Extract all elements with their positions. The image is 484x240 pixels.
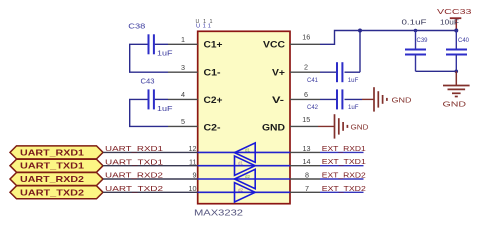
svg-text:d1: d1 xyxy=(238,161,244,166)
wire V- row xyxy=(320,98,336,100)
junction node C39 tap xyxy=(414,29,418,33)
svg-text:EXT_TXD1: EXT_TXD1 xyxy=(322,157,366,166)
svg-text:UART_TXD2: UART_TXD2 xyxy=(105,184,163,193)
svg-text:C41: C41 xyxy=(307,77,319,84)
wire V+ row xyxy=(320,71,336,73)
pin 8 stub xyxy=(290,178,320,180)
op-amp U1 chip body MAX3232 xyxy=(198,31,290,203)
port UART_TXD1 xyxy=(10,159,103,172)
wire V+ riser xyxy=(359,31,361,73)
pin 13 stub xyxy=(290,151,320,153)
capacitor C1 wire left segment row1 xyxy=(130,44,168,72)
buffer T2 triangle xyxy=(235,183,256,202)
svg-text:U11: U11 xyxy=(196,24,211,30)
svg-text:C2-: C2- xyxy=(204,122,221,132)
svg-text:11: 11 xyxy=(189,157,196,166)
port UART_RXD2 xyxy=(10,173,103,186)
wire net EXT_RXD2 xyxy=(320,178,364,180)
svg-text:UART_TXD1: UART_TXD1 xyxy=(105,157,163,166)
capacitor C42 xyxy=(307,89,359,110)
svg-text:GND: GND xyxy=(443,99,467,108)
pin 16 stub xyxy=(290,43,320,45)
svg-text:4: 4 xyxy=(181,90,185,99)
pin 4 stub xyxy=(168,98,198,100)
svg-text:C43: C43 xyxy=(141,78,155,85)
pin 2 stub xyxy=(290,71,320,73)
ground sideways at V- xyxy=(362,87,387,111)
svg-text:UART_RXD1: UART_RXD1 xyxy=(20,147,84,157)
pin 15 stub xyxy=(290,125,318,127)
pin 7 stub xyxy=(290,191,320,193)
svg-text:6: 6 xyxy=(304,90,308,99)
wire net EXT_RXD1 xyxy=(320,151,364,153)
svg-text:C1+: C1+ xyxy=(204,40,223,50)
capacitor C2 wire left segment row3 xyxy=(130,99,168,126)
svg-text:GND: GND xyxy=(392,98,412,105)
svg-text:C1-: C1- xyxy=(204,68,221,78)
svg-text:MAX3232: MAX3232 xyxy=(194,209,244,218)
svg-text:d2: d2 xyxy=(238,188,244,193)
buffer R2 triangle xyxy=(235,169,256,188)
svg-text:UART_TXD2: UART_TXD2 xyxy=(20,187,84,197)
capacitor C41 xyxy=(307,62,359,84)
ground sideways at pin15 xyxy=(318,114,347,138)
svg-text:10: 10 xyxy=(189,184,197,193)
wire row3 inside chip xyxy=(198,178,290,180)
buffer R1 triangle xyxy=(235,143,256,162)
wire row4 inside chip xyxy=(198,191,290,193)
junction node cap bottom xyxy=(455,70,459,74)
ground down at C40 xyxy=(443,71,470,96)
svg-text:d2: d2 xyxy=(245,174,251,179)
junction node V+ tap xyxy=(358,29,362,33)
svg-text:VCC: VCC xyxy=(263,40,286,50)
capacitor C39 0.1uF xyxy=(402,20,429,72)
svg-text:13: 13 xyxy=(303,144,311,153)
svg-text:2: 2 xyxy=(304,63,308,72)
tiny labels inside buffers xyxy=(238,148,251,193)
svg-text:15: 15 xyxy=(302,115,310,124)
pin 6 stub xyxy=(290,98,320,100)
capacitor C40 10uF xyxy=(440,20,470,72)
junction node rail end xyxy=(454,29,458,33)
svg-text:EXT_RXD2: EXT_RXD2 xyxy=(322,171,366,180)
svg-text:V-: V- xyxy=(272,95,284,105)
svg-text:C38: C38 xyxy=(128,23,145,30)
svg-text:1uF: 1uF xyxy=(157,106,173,113)
svg-text:1uF: 1uF xyxy=(348,104,359,111)
buffer T1 triangle xyxy=(235,156,256,175)
svg-text:9: 9 xyxy=(193,171,197,180)
wire net EXT_TXD1 xyxy=(320,165,364,167)
svg-text:5: 5 xyxy=(181,117,185,126)
svg-text:GND: GND xyxy=(351,125,369,132)
svg-text:C40: C40 xyxy=(458,37,470,44)
svg-text:C2+: C2+ xyxy=(204,95,223,105)
svg-text:C42: C42 xyxy=(307,104,319,111)
pin 1 stub xyxy=(168,43,198,45)
svg-text:EXT_RXD1: EXT_RXD1 xyxy=(322,144,366,153)
svg-text:UART_RXD2: UART_RXD2 xyxy=(20,174,84,184)
svg-text:UART_RXD1: UART_RXD1 xyxy=(105,144,163,153)
wire row2 inside chip xyxy=(198,165,290,167)
port UART_TXD2 xyxy=(10,186,103,199)
svg-text:12: 12 xyxy=(189,144,197,153)
wire port2 to pin11 xyxy=(103,165,198,167)
svg-text:1: 1 xyxy=(181,35,185,44)
power port VCC33 xyxy=(437,9,472,30)
pin 5 stub xyxy=(168,125,198,127)
svg-text:UART_RXD2: UART_RXD2 xyxy=(105,171,163,180)
pin 14 stub xyxy=(290,165,320,167)
svg-text:VCC33: VCC33 xyxy=(437,9,472,16)
svg-text:16: 16 xyxy=(302,33,310,42)
svg-text:7: 7 xyxy=(305,184,309,193)
capacitor C38 xyxy=(128,23,172,57)
svg-text:GND: GND xyxy=(262,122,286,132)
svg-text:V+: V+ xyxy=(272,68,285,78)
wire cap C2 right segment xyxy=(155,98,168,100)
svg-text:EXT_TXD2: EXT_TXD2 xyxy=(322,184,366,193)
svg-text:0.1uF: 0.1uF xyxy=(402,20,427,27)
svg-text:C39: C39 xyxy=(417,37,429,44)
svg-text:10uF: 10uF xyxy=(440,20,459,27)
svg-text:1uF: 1uF xyxy=(348,77,359,84)
svg-text:d1: d1 xyxy=(245,148,251,153)
wire row1 inside chip xyxy=(198,151,290,153)
svg-text:14: 14 xyxy=(303,157,311,166)
svg-text:8: 8 xyxy=(305,171,309,180)
wire port3 to pin9 xyxy=(103,178,198,180)
wire cap bottoms xyxy=(416,70,457,72)
svg-text:3: 3 xyxy=(181,63,185,72)
wire cap C1 right segment xyxy=(155,43,168,45)
pin 3 stub xyxy=(168,71,198,73)
wire VCC pin16 to rail xyxy=(320,31,456,45)
port UART_RXD1 xyxy=(10,146,103,159)
capacitor C43 xyxy=(141,78,173,112)
wire port1 to pin12 xyxy=(103,151,198,153)
wire port4 to pin10 xyxy=(103,191,198,193)
wire net EXT_TXD2 xyxy=(320,191,364,193)
svg-text:1uF: 1uF xyxy=(157,51,173,58)
svg-text:UART_TXD1: UART_TXD1 xyxy=(20,161,84,171)
